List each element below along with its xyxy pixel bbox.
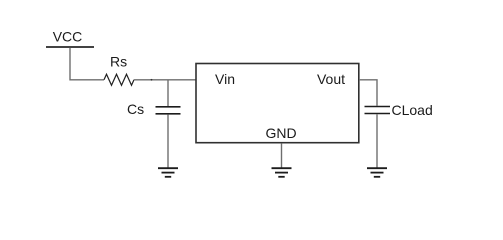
resistor Rs [104, 54, 134, 86]
svg-text:Rs: Rs [110, 54, 127, 70]
wire from Rs to node A and regulator Vin pin [134, 79, 196, 81]
regulator U1 box [196, 64, 359, 143]
node A junction wire down to Cs [167, 80, 169, 106]
capacitor CLoad [365, 102, 433, 118]
svg-text:VCC: VCC [53, 29, 83, 45]
ground (below CLoad) [367, 168, 387, 177]
power symbol VCC [46, 29, 94, 48]
svg-text:Vout: Vout [317, 71, 345, 87]
wire from CLoad to ground [376, 114, 378, 167]
svg-text:GND: GND [265, 125, 296, 141]
wire from Cs to ground [167, 115, 169, 168]
capacitor Cs [127, 101, 181, 117]
wire GND pin to ground [281, 143, 283, 167]
wire from Vout pin to CLoad [359, 80, 377, 106]
svg-text:Cs: Cs [127, 101, 144, 117]
svg-text:CLoad: CLoad [392, 102, 433, 118]
ground (below Cs) [158, 168, 178, 177]
wire from VCC to resistor Rs [70, 48, 104, 80]
ground (below regulator GND pin) [272, 168, 292, 177]
svg-text:Vin: Vin [215, 71, 235, 87]
